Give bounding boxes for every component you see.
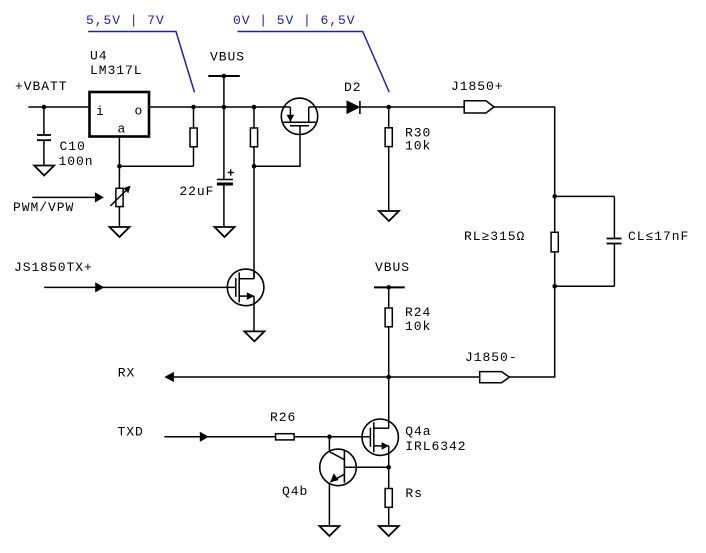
- svg-text:+VBATT: +VBATT: [15, 79, 68, 94]
- svg-text:VBUS: VBUS: [210, 50, 245, 65]
- transistor Q4a IRL6342: [362, 419, 398, 455]
- junction TXD/Q4b: [327, 435, 332, 440]
- svg-text:o: o: [135, 104, 144, 119]
- svg-text:10k: 10k: [405, 319, 431, 334]
- junction divider tap: [252, 105, 257, 110]
- svg-text:U4: U4: [90, 49, 108, 64]
- transistor PMOS bus pull-up: [281, 98, 317, 134]
- wire NMOS source to ground: [253, 296, 255, 331]
- ground 22uF: [215, 227, 235, 237]
- annotation note 0V | 5V | 6,5V: [233, 13, 389, 92]
- resistor Rs: [385, 467, 392, 526]
- resistor RL: [551, 196, 558, 286]
- junction C10 tap: [42, 105, 47, 110]
- wire rail PMOS to D2 anode: [309, 106, 348, 108]
- ground potentiometer: [110, 227, 130, 237]
- power VBUS bottom: [374, 260, 410, 290]
- ground NMOS source: [244, 331, 264, 341]
- junction VBUS tap top: [222, 105, 227, 110]
- wire NMOS drain up: [253, 270, 255, 279]
- junction D2 cathode node: [386, 105, 391, 110]
- wire RL/CL top: [555, 195, 615, 197]
- wire Q4a source down: [388, 446, 390, 467]
- svg-text:10k: 10k: [405, 139, 431, 154]
- capacitor 22uF: [217, 107, 234, 227]
- junction bus bottom: [552, 284, 557, 289]
- svg-text:C10: C10: [60, 139, 86, 154]
- resistor R30: [385, 107, 392, 211]
- ground C10: [34, 166, 54, 176]
- svg-text:0V | 5V | 6,5V: 0V | 5V | 6,5V: [233, 13, 356, 28]
- connector J1850-: [480, 372, 510, 383]
- svg-text:RX: RX: [118, 366, 136, 381]
- annotation note 5,5V | 7V: [86, 13, 195, 92]
- transistor Q4b: [320, 437, 357, 526]
- junction Q4a source / Rs: [386, 465, 391, 470]
- svg-text:Rs: Rs: [405, 486, 423, 501]
- svg-text:Q4a: Q4a: [405, 424, 431, 439]
- svg-text:J1850+: J1850+: [451, 79, 504, 94]
- arrow PWM/VPW: [32, 192, 104, 202]
- svg-text:Q4b: Q4b: [282, 484, 308, 499]
- svg-text:i: i: [96, 104, 105, 119]
- capacitor C10: [37, 107, 51, 166]
- svg-text:D2: D2: [344, 80, 362, 95]
- svg-text:100n: 100n: [59, 154, 94, 169]
- svg-text:R26: R26: [270, 410, 296, 425]
- svg-text:VBUS: VBUS: [375, 260, 410, 275]
- wire TX node to PMOS gate: [254, 126, 300, 167]
- svg-text:R24: R24: [405, 305, 431, 320]
- connector J1850+: [464, 101, 494, 113]
- svg-text:J1850-: J1850-: [465, 350, 518, 365]
- arrow JS1850TX+: [44, 282, 236, 292]
- ground R30: [379, 211, 399, 221]
- junction TX node: [252, 164, 257, 169]
- wire RL/CL bottom: [555, 285, 615, 287]
- svg-text:LM317L: LM317L: [90, 63, 143, 78]
- arrow TXD: [164, 432, 275, 442]
- wire R24 to Q4a drain: [388, 377, 390, 428]
- svg-text:a: a: [118, 122, 127, 137]
- wire adj node horizontal: [119, 165, 193, 167]
- wire bus down to J1850-: [509, 286, 554, 377]
- wire +VBATT rail: [28, 106, 88, 108]
- junction adj node: [117, 164, 122, 169]
- capacitor CL: [607, 196, 622, 286]
- svg-text:5,5V | 7V: 5,5V | 7V: [86, 13, 165, 28]
- resistor R26: [276, 434, 295, 440]
- svg-text:IRL6342: IRL6342: [405, 439, 466, 454]
- svg-text:JS1850TX+: JS1850TX+: [14, 260, 93, 275]
- svg-text:TXD: TXD: [118, 425, 144, 440]
- junction RX/R24: [386, 375, 391, 380]
- resistor adj divider upper: [190, 107, 197, 166]
- junction regulator output node: [191, 105, 196, 110]
- ground Q4b emitter: [319, 526, 339, 536]
- diode D2: [347, 101, 360, 114]
- wire J1850+ to bus corner: [494, 107, 555, 196]
- ground Rs: [379, 526, 399, 536]
- arrow RX: [164, 372, 174, 382]
- svg-text:CL≤17nF: CL≤17nF: [628, 229, 689, 244]
- wire TX chain down to NMOS drain: [253, 166, 255, 278]
- resistor divider lower: [250, 107, 257, 166]
- regulator U4 LM317L: [90, 92, 150, 137]
- resistor R24: [385, 287, 392, 377]
- wire RX line: [170, 376, 480, 378]
- wire U4 output rail (left of PMOS): [150, 106, 290, 108]
- wire rail D2 cathode to J1850+: [360, 106, 464, 108]
- svg-text:22uF: 22uF: [179, 184, 214, 199]
- wire R26 to Q4a gate: [294, 436, 370, 438]
- power VBUS top: [208, 50, 245, 108]
- wire U4 adj pin: [118, 137, 120, 166]
- junction bus top: [552, 194, 557, 199]
- svg-text:PWM/VPW: PWM/VPW: [13, 200, 74, 215]
- transistor NMOS JS1850TX+ driver: [227, 269, 264, 306]
- potentiometer PWM/VPW adjust: [110, 166, 130, 227]
- svg-text:RL≥315Ω: RL≥315Ω: [464, 229, 525, 244]
- wire Q4b base: [344, 466, 388, 468]
